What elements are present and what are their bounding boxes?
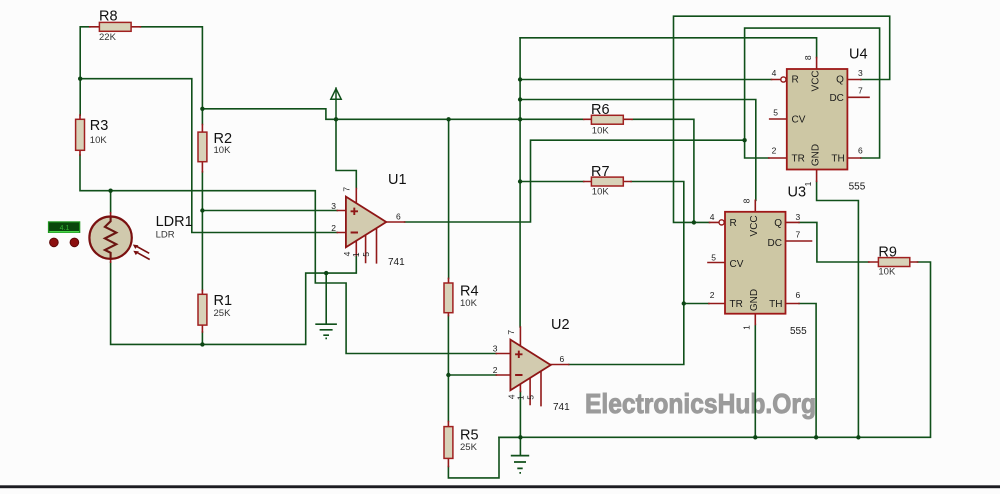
wire power rail [202,109,520,120]
svg-text:7: 7 [506,330,516,335]
bottom bar [0,485,1000,488]
svg-text:U1: U1 [388,172,407,188]
voltmeter display [49,222,80,247]
resistor R2 [198,132,207,162]
resistor R3 [76,119,85,150]
svg-text:2: 2 [710,290,715,300]
wire to U4 TH [745,28,880,158]
wire to U4 TR [745,140,769,158]
node R2/R1/pin3 [200,208,204,212]
ground 2 [511,456,529,473]
svg-text:10K: 10K [592,187,610,198]
U4 pin leads [769,58,869,182]
op-amp U2 [510,340,550,391]
ground 1 [315,324,337,338]
svg-text:7: 7 [342,187,352,192]
R8 leads [90,26,141,28]
svg-text:LDR1: LDR1 [156,214,193,230]
node U3 R [692,220,696,224]
resistor R8 [99,22,131,31]
wire R3/R8 node to U1 pin2 [80,79,337,233]
svg-text:10K: 10K [90,135,108,146]
svg-text:DC: DC [829,93,843,104]
svg-text:LDR: LDR [156,230,175,241]
svg-text:5: 5 [773,108,778,118]
wire R8 right to R2 top [140,27,202,125]
svg-text:10K: 10K [878,266,896,277]
R3 leads [79,115,81,155]
svg-text:1: 1 [803,181,813,186]
svg-text:R9: R9 [878,244,897,260]
wire U4 GND down [817,181,859,437]
svg-text:25K: 25K [214,308,232,319]
wire U2 pin4 to ground node [519,392,521,438]
pin numbers U2 [493,330,565,401]
wire LDR top [110,191,112,213]
node R8/R2/rail [200,107,204,111]
svg-text:2: 2 [772,145,777,155]
svg-text:Q: Q [774,218,782,229]
R7 leads [584,181,631,183]
svg-text:R: R [730,218,737,229]
wire U2 output to U3 TR node [569,304,684,365]
svg-text:7: 7 [858,86,863,96]
node rail/U3 TH [814,435,818,439]
svg-text:2: 2 [493,365,498,375]
op-amp U1 [346,197,386,248]
pin numbers U1 [331,187,401,258]
svg-text:5: 5 [526,395,536,400]
svg-text:TR: TR [792,154,805,165]
wire LDR bottom to ground net [111,255,357,344]
pin numbers U3 [710,198,801,330]
wire ground 2 stem [519,437,521,455]
U2 pin leads [496,327,568,406]
svg-text:TH: TH [831,154,844,165]
wire VCC to U3 VCC pin [520,100,756,201]
svg-text:R7: R7 [591,164,610,180]
node power arrow [334,117,338,121]
svg-text:R4: R4 [460,284,479,300]
svg-text:VCC: VCC [749,215,760,236]
svg-text:8: 8 [742,198,752,203]
svg-text:555: 555 [849,182,866,193]
svg-text:10K: 10K [214,145,232,156]
R5 leads [447,422,449,467]
R4 leads [447,278,449,315]
svg-text:R6: R6 [591,102,610,118]
wire VCC to U4 VCC pin [520,38,817,58]
svg-text:1: 1 [516,395,526,400]
wire node to U1 pin3 [202,210,337,212]
svg-text:TR: TR [730,299,743,310]
svg-text:3: 3 [796,212,801,222]
svg-text:10K: 10K [460,298,478,309]
wire U3 GND down [754,324,756,437]
svg-text:5: 5 [711,253,716,263]
svg-text:10K: 10K [592,126,610,137]
svg-text:4: 4 [772,68,777,78]
node rail/U3 GND [753,435,757,439]
svg-text:6: 6 [858,145,863,155]
svg-text:1: 1 [742,325,752,330]
wire VCC to U4 R pin [520,79,771,81]
svg-text:U4: U4 [849,47,868,63]
wire U4 Q to U3 R pin [674,16,890,222]
svg-text:6: 6 [396,212,401,222]
wire R2 bottom node [201,172,203,211]
U4 reset bubble [781,77,786,82]
node rail/U4 GND [856,435,860,439]
node R3/LDR [108,189,112,193]
power arrow [331,87,341,119]
svg-text:R1: R1 [214,293,233,309]
wire R8 left to R3 top [80,27,90,115]
svg-text:25K: 25K [460,442,478,453]
R2 leads [201,125,203,172]
wire R6 right to U3 R node [632,119,694,222]
wire bottom ground rail and R9 right [499,262,931,437]
wire ground 1 stem [325,273,327,323]
node R4/R5/pin2 [446,373,450,377]
node VCC/U3 VCC [518,97,522,101]
U3 reset bubble [719,220,724,225]
node U3 TR [682,301,686,305]
svg-text:GND: GND [811,144,822,166]
svg-text:R3: R3 [90,118,109,134]
wire node to U2 pin2 [448,374,496,376]
node U1 ground [324,271,328,275]
wire R7 right down to U3 TR node [631,182,684,304]
wire R2 node to R1 top [201,211,203,291]
svg-text:R8: R8 [99,9,118,25]
wire VCC to R7 left [520,181,584,183]
svg-text:TH: TH [769,299,782,310]
svg-text:741: 741 [388,257,405,268]
resistor R9 [878,258,909,267]
555 timer U4 [787,69,848,170]
svg-text:1: 1 [351,252,361,257]
wire rail to R4 top [448,119,450,278]
svg-text:6: 6 [796,290,801,300]
wire R5 bottom loop to ground node [448,437,520,478]
svg-text:GND: GND [749,289,760,311]
pin names U3 [730,215,783,311]
wire R1 bottom [201,332,203,344]
svg-text:R: R [792,75,799,86]
wire rail to R6 left [520,118,584,120]
svg-text:8: 8 [803,55,813,60]
wire node to U3 TR [684,303,709,305]
svg-text:CV: CV [792,115,806,126]
svg-text:555: 555 [790,326,807,337]
svg-text:DC: DC [768,238,782,249]
resistor R4 [444,283,453,313]
node VCC/R7 [518,179,522,183]
svg-text:CV: CV [730,259,744,270]
svg-text:6: 6 [560,354,565,364]
LDR1 leads [110,213,112,262]
svg-text:3: 3 [858,68,863,78]
node rail/R4 [446,117,450,121]
wire U3 Q to R9 [799,222,869,262]
LDR1 photoresistor [89,217,149,260]
wire power arrow to U1 pin7 [336,119,356,188]
node U2 ground [518,435,522,439]
R1 leads [201,290,203,332]
wire U1 output to U4 TR/TH [405,140,745,222]
svg-text:Q: Q [836,75,844,86]
pin numbers U4 [772,55,863,186]
wire R4 bottom to U2 pin2 node [447,316,449,375]
555 timer U3 [725,212,786,314]
wire R3 bottom to U2 pin3 [80,155,496,354]
wire U3 TH down [799,304,816,438]
node VCC/U4 R [518,77,522,81]
resistor R5 [444,427,453,459]
resistor R7 [591,177,623,186]
svg-text:4.1: 4.1 [60,225,70,232]
U3 pin leads [708,200,812,324]
wire node to R5 top [447,375,449,422]
pin names U4 [792,70,845,166]
resistor R6 [591,115,623,124]
node R8/R3 [78,77,82,81]
node rail/R6/VCC [518,117,522,121]
svg-text:7: 7 [796,230,801,240]
svg-text:3: 3 [331,201,336,211]
svg-text:741: 741 [553,402,570,413]
R9 leads [869,261,918,263]
svg-text:ElectronicsHub.Org: ElectronicsHub.Org [585,388,816,419]
node U4 TR/TH [742,138,746,142]
svg-text:3: 3 [493,343,498,353]
U1 pin leads [337,189,404,263]
svg-text:U2: U2 [551,317,570,333]
wire VCC column [519,38,521,327]
R6 leads [584,118,632,120]
node R1 bottom [200,342,204,346]
svg-text:VCC: VCC [811,70,822,91]
svg-text:5: 5 [361,252,371,257]
svg-text:2: 2 [331,223,336,233]
resistor R1 [198,294,207,325]
svg-text:22K: 22K [99,32,117,43]
svg-text:4: 4 [710,212,715,222]
